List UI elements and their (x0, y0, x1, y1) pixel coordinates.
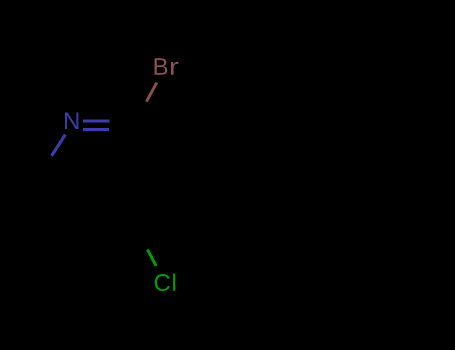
bond N=C2 main line (83, 119, 110, 122)
bond N=C2 inner line (83, 128, 109, 131)
atom Br letter B (155, 58, 168, 75)
atom Cl letter C (155, 274, 170, 291)
atom N (65, 112, 78, 129)
atom Br letter r (171, 62, 179, 75)
bond C4-Cl (147, 249, 156, 265)
bond C2-Br (146, 83, 156, 102)
atom Cl letter l (173, 273, 175, 290)
bond N-C6 (52, 135, 66, 157)
